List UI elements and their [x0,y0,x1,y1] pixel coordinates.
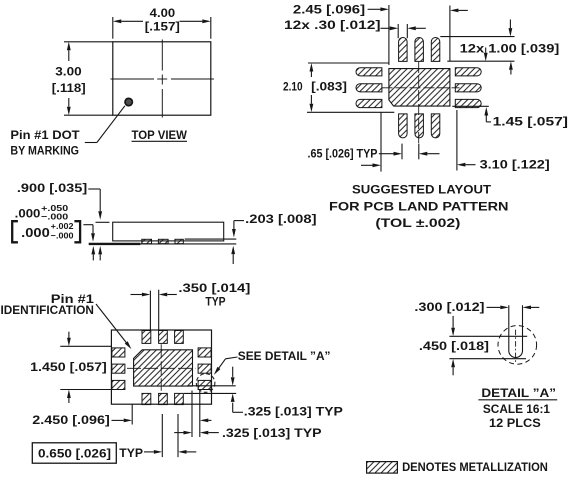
svg-text:0.650 [.026]: 0.650 [.026] [38,446,111,460]
svg-text:.000: .000 [15,208,41,220]
dimension 3.10 arrows [361,164,373,166]
svg-text:DETAIL ”A”: DETAIL ”A” [481,386,556,400]
svg-text:12x 1.00 [.039]: 12x 1.00 [.039] [460,42,560,56]
top view horizontal centerline [111,78,155,80]
land pattern bottom pad 2 [415,114,424,138]
bottom view top pad col 2 [159,331,168,344]
dimension 1.45 elbow with up arrow [484,107,488,116]
dimension .350 extension lines [149,291,151,330]
svg-text:2.450 [.096]: 2.450 [.096] [32,413,110,427]
legend hatch sample box [367,462,398,474]
land pattern bottom pad 3 [431,114,440,138]
svg-text:.325 [.013] TYP: .325 [.013] TYP [222,426,322,440]
bottom view left pad row 3 [112,380,125,389]
bottom view vertical centerline [160,344,162,391]
dimension 2.450 extension line left [131,404,133,424]
dimension 0.650 [.026] boxed text [32,443,116,463]
svg-text:2.45 [.096]: 2.45 [.096] [293,3,365,17]
svg-text:SCALE 16:1: SCALE 16:1 [483,402,550,416]
svg-text:.450 [.018]: .450 [.018] [419,339,489,353]
dimension .325 #1 extension lines [188,385,236,387]
svg-text:.203 [.008]: .203 [.008] [245,212,316,226]
land pattern vertical centerline [418,62,420,144]
bottom view right pad row 3 [198,380,211,389]
dimension 0.650 arrows [144,451,154,453]
bottom view left pad row 2 [112,364,125,373]
dimension .203 up arrow below [231,246,235,255]
detail A horizontal line upper [449,335,527,337]
dimension 2.10 extension lines [308,62,389,64]
svg-text:3.10 [.122]: 3.10 [.122] [480,158,550,172]
svg-text:(TOL ±.002): (TOL ±.002) [375,216,460,230]
side view top extension line [96,221,110,223]
dimension .203 [.008] elbow with down arrow [234,220,244,222]
svg-text:.900 [.035]: .900 [.035] [17,181,87,195]
dimension 2.45 extension lines [388,5,390,65]
bottom view top pad col 3 [175,331,184,344]
land pattern top pad 2 [415,37,424,61]
svg-text:1.450 [.057]: 1.450 [.057] [30,360,107,374]
dimension 0.650 extension lines [161,414,163,457]
dimension 4.00 [.157] extension lines [112,17,114,39]
bottom view right pad row 2 [198,364,211,373]
svg-text:TYP: TYP [205,294,225,308]
dimension 2.10 dimension line with arrows [310,63,314,72]
dimension 2.45 arrows [368,8,381,10]
leader to pin 1 chamfer with arrow [96,304,128,344]
top view vertical centerline [161,40,163,71]
top view: package body outline 4.00 x 3.00 [113,42,211,115]
svg-text:DENOTES METALLIZATION: DENOTES METALLIZATION [402,460,548,474]
svg-text:.325 [.013] TYP: .325 [.013] TYP [244,405,343,419]
dimension .350 arrows [131,294,142,296]
detail A pad centerline (dash-dot) [515,330,517,364]
svg-text:12 PLCS: 12 PLCS [489,416,541,430]
side view seating plane thin segment [140,243,236,245]
land pattern horizontal centerline [382,87,460,89]
bottom view bottom pad col 3 [175,393,184,404]
land pattern right pad row 3 [455,99,481,107]
dimension 1.450 extension lines [60,345,111,347]
land pattern center pad (hatched, chamfered corner) [389,69,450,107]
svg-text:Pin #1 DOT: Pin #1 DOT [10,128,80,142]
svg-text:TOP VIEW: TOP VIEW [132,128,188,142]
side view: package body profile [113,222,224,241]
svg-text:[.083]: [.083] [311,79,347,93]
dimension 1.45 [.057] extension line [452,105,489,107]
dimension 3.00 [.118] dimension line with arrows [67,42,71,51]
bottom view: package outline [111,330,211,404]
bottom view right pad row 1 [198,348,211,357]
dimension .65 ticks and arrows [401,144,403,160]
land pattern top pad 3 [431,37,440,61]
bottom view bottom pad col 1 [142,393,151,404]
side view terminal top line [185,238,237,240]
svg-text:−.000: −.000 [41,211,68,221]
dimension 1.00 extension lines [440,36,514,38]
svg-text:IDENTIFICATION: IDENTIFICATION [1,303,94,317]
land pattern top pad 1 [399,37,408,61]
land pattern right pad row 2 [455,84,481,92]
bottom view bottom pad col 2 [159,393,168,404]
dimension 2.450 arrows [112,419,124,421]
svg-text:2.10: 2.10 [283,79,303,93]
land pattern left pad row 1 [356,68,382,76]
svg-text:.300 [.012]: .300 [.012] [414,300,484,314]
svg-text:BY MARKING: BY MARKING [10,144,79,158]
extension lines below circled pad [191,391,193,438]
dimension .325 #1 arrows and elbow [232,367,234,377]
side view solder pad 3 (hatched) [175,239,183,243]
svg-text:.65 [.026] TYP: .65 [.026] TYP [308,146,378,160]
svg-text:−.000: −.000 [51,231,74,241]
bottom view top pad col 1 [142,331,151,344]
svg-text:SUGGESTED LAYOUT: SUGGESTED LAYOUT [352,183,492,197]
bottom view left pad row 1 [112,348,125,357]
side view seating plane thick segment [89,243,141,245]
detail A dashed circle [498,326,537,365]
bottom view center pad (hatched, pin 1 chamfer) [134,350,193,386]
dimension 3.10 [.122] extension lines [380,112,382,171]
dimension .900 leader elbow with down arrow [88,188,100,190]
leader to detail A circle [226,357,238,359]
svg-text:4.00: 4.00 [150,6,176,20]
up arrows below seating plane [91,246,95,255]
land pattern left pad row 2 [356,84,382,92]
side view solder pad 1 (hatched) [142,239,152,243]
pin #1 dot marking [125,98,132,105]
leader line to pin 1 dot [85,142,97,144]
svg-text:3.00: 3.00 [55,65,82,79]
dimension .300 arrows [487,306,501,308]
svg-text:FOR PCB LAND PATTERN: FOR PCB LAND PATTERN [329,200,509,214]
dimension .325 #2 arrows [174,432,183,434]
dimension .30 ticks and arrows [397,24,399,38]
svg-text:1.45 [.057]: 1.45 [.057] [493,114,568,128]
svg-text:.350 [.014]: .350 [.014] [178,281,250,295]
land pattern right pad row 1 [455,68,481,76]
svg-text:.000: .000 [21,226,50,240]
svg-text:[.118]: [.118] [52,81,86,95]
detail A horizontal line lower [449,358,526,360]
dimension 3.00 [.118] extension lines [63,41,65,43]
side view solder pad 2 (hatched) [158,239,168,243]
svg-text:+.002: +.002 [51,221,74,231]
dimension 1.450 arrows [68,332,70,338]
svg-text:[.157]: [.157] [145,19,180,33]
svg-text:SEE DETAIL ”A”: SEE DETAIL ”A” [238,349,331,363]
bottom view horizontal centerline [127,367,195,369]
dimension .000 leader elbow with down arrow [83,224,93,226]
dimension 1.00 arrows [509,20,511,29]
dimension [.000 +.002/-.000] bracketed text [12,221,18,242]
svg-text:TYP: TYP [119,446,143,460]
land pattern left pad row 3 [356,99,382,107]
detail A pad outline (u-shape) [509,305,523,357]
land pattern bottom pad 1 [399,114,408,138]
dashed circle around detail pad [196,374,215,393]
dimension 4.00 [.157] dimension line with arrows [113,19,122,23]
dimension .450 arrows [452,316,454,328]
svg-text:12x .30 [.012]: 12x .30 [.012] [284,18,381,32]
